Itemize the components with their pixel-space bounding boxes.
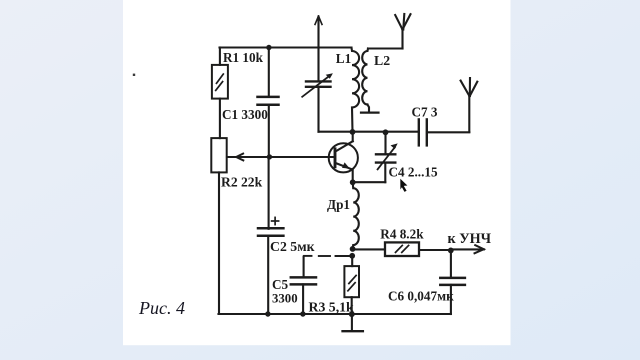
ground	[343, 314, 363, 331]
node bottom rail / C2	[265, 311, 270, 316]
capacitor C5	[291, 257, 316, 314]
svg-text:C1 3300: C1 3300	[222, 107, 268, 122]
inductor Dr1	[353, 182, 359, 249]
wire Dr1 to R4	[353, 248, 385, 250]
wire L2 top to antenna W1	[368, 47, 403, 49]
wire output arrow	[451, 248, 484, 250]
capacitor C6	[440, 250, 465, 314]
capacitor C2 (electrolytic, +)	[258, 157, 283, 314]
wire node to R3	[351, 256, 353, 266]
resistor R2 (potentiometer)	[211, 138, 226, 172]
wire bottom rail	[219, 313, 451, 315]
node emitter	[350, 179, 356, 185]
inductor L2	[361, 49, 379, 113]
wiper arrowhead	[236, 154, 243, 161]
wire R2 to bottom rail	[218, 172, 220, 314]
transistor VT1	[329, 132, 358, 182]
wire emitter to C4 branch	[353, 181, 386, 183]
svg-text:C2 5мк: C2 5мк	[270, 239, 315, 254]
antenna W1	[395, 14, 410, 49]
svg-text:R1 10k: R1 10k	[223, 50, 264, 65]
resistor R1	[212, 65, 228, 99]
node Dr1 / dashed wire	[349, 253, 355, 259]
capacitor C4 (variable)	[376, 132, 398, 169]
node top rail / C1	[266, 45, 271, 50]
svg-text:C6 0,047мк: C6 0,047мк	[388, 289, 454, 304]
wire dashed C5 to emitter node	[304, 255, 312, 257]
antenna W2 (whip, arrow up)	[315, 16, 322, 81]
wire R1 to R2	[219, 99, 221, 139]
node output	[448, 248, 454, 254]
capacitor C3 (variable tuning)	[302, 73, 333, 132]
node C4 / mid rail	[383, 129, 389, 135]
svg-text:L2: L2	[374, 53, 390, 68]
wire left column top	[219, 48, 221, 65]
svg-text:3300: 3300	[272, 291, 298, 305]
node base wire / C1-C2	[267, 154, 272, 159]
wire wiper to base	[227, 156, 335, 158]
wire mid rail right	[427, 131, 469, 133]
capacitor C1	[258, 48, 279, 157]
wire R3 to bottom rail	[351, 297, 353, 314]
inductor L1	[352, 48, 360, 132]
node Dr1 / R4	[350, 246, 356, 252]
capacitor C7	[419, 119, 427, 145]
mouse cursor	[400, 179, 407, 192]
svg-text:C5: C5	[272, 277, 289, 292]
wire top rail	[220, 46, 352, 48]
output arrowhead	[475, 245, 484, 253]
node collector / mid rail	[350, 129, 356, 135]
node bottom rail / C5	[300, 311, 305, 316]
svg-text:Др1: Др1	[327, 197, 350, 212]
svg-text:C7 3: C7 3	[412, 105, 438, 120]
svg-text:L1: L1	[336, 51, 351, 66]
svg-text:к УНЧ: к УНЧ	[448, 231, 492, 247]
resistor R4	[385, 242, 419, 256]
wire R4 to output node	[420, 249, 451, 251]
wire C4 branch vertical	[384, 163, 386, 182]
resistor R3	[344, 266, 359, 297]
svg-text:R2 22k: R2 22k	[221, 175, 263, 190]
svg-text:Рис. 4: Рис. 4	[138, 298, 185, 318]
svg-text:R4 8.2k: R4 8.2k	[380, 227, 424, 242]
svg-text:C4 2...15: C4 2...15	[389, 165, 438, 180]
svg-text:R3 5,1k: R3 5,1k	[309, 299, 355, 314]
antenna W3	[461, 78, 478, 132]
wire mid rail left	[319, 131, 419, 133]
speck	[133, 74, 135, 76]
node bottom rail / R3	[349, 311, 355, 317]
